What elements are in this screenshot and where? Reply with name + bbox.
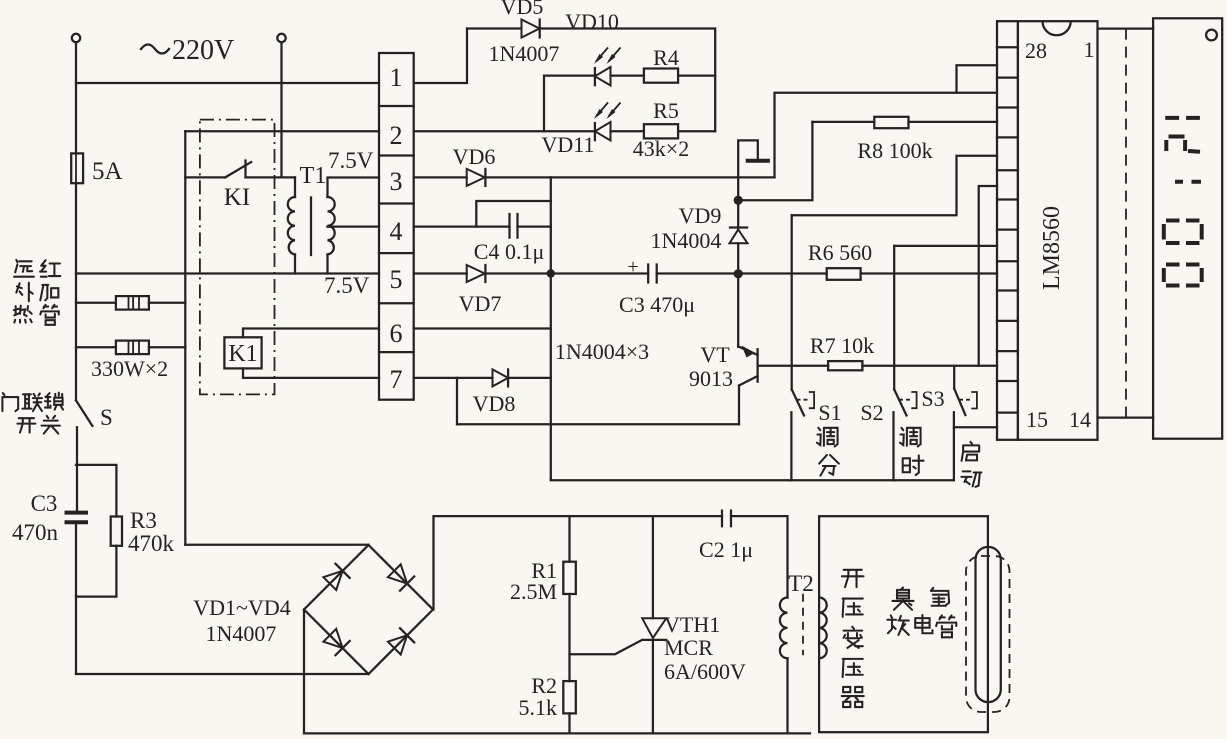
thyristor VTH1 anode lead xyxy=(652,516,654,618)
transformer T2 secondary on box edge xyxy=(819,598,827,659)
wire: node200 to R8 riser xyxy=(738,122,812,200)
label VD6 xyxy=(453,144,496,169)
svg-text:S1: S1 xyxy=(818,400,841,425)
svg-text:LM8560: LM8560 xyxy=(1039,206,1065,290)
transformer T1 primary xyxy=(288,177,295,254)
svg-text:4: 4 xyxy=(390,217,403,246)
chip pin label 1 xyxy=(1084,37,1095,62)
transistor VT 9013 xyxy=(739,346,758,425)
label R4 xyxy=(653,45,679,70)
wire: VD9 vertical x=738.2 xyxy=(737,200,739,274)
switch S3 (start) xyxy=(954,389,977,415)
svg-text:1N4004×3: 1N4004×3 xyxy=(555,339,649,364)
svg-text:S3: S3 xyxy=(921,386,944,411)
resistor R5 xyxy=(644,124,678,138)
IC U1 LM8560 body xyxy=(1018,21,1098,440)
wire: S3 upper lead xyxy=(953,366,955,389)
svg-text:VD10: VD10 xyxy=(565,9,619,34)
resistor R1 2.5M xyxy=(563,516,576,594)
wire: S3 to pin14 y=427.2 xyxy=(954,426,997,428)
svg-text:1: 1 xyxy=(1084,37,1095,62)
label S xyxy=(100,405,113,430)
node: junction dot 738.2,274.1 xyxy=(734,269,743,278)
svg-text:6A/600V: 6A/600V xyxy=(664,659,746,684)
ozone tube dashed envelope xyxy=(966,556,1010,712)
wire: K1 coil top to terminal6 xyxy=(243,329,379,338)
wire: C3R3 top bar y=464.9 xyxy=(76,465,116,517)
diode VD8 xyxy=(493,369,509,386)
label text: switch (kai guan) xyxy=(17,416,60,434)
bridge diode lower-right xyxy=(388,628,414,654)
wire: chip to display bottom y=417.6 xyxy=(1098,416,1154,418)
wire: pin5 line y=215.2 xyxy=(792,156,997,215)
label VD8 xyxy=(473,391,516,416)
label R8 100k xyxy=(857,138,932,163)
svg-text:T2: T2 xyxy=(788,571,814,596)
resistor R4 xyxy=(644,69,678,83)
svg-text:470k: 470k xyxy=(128,531,175,556)
label 330Wx2 xyxy=(91,356,168,381)
wire: S1 lower lead xyxy=(790,412,792,480)
wire: heater2 feed y=347.3 xyxy=(76,346,185,348)
svg-text:2: 2 xyxy=(390,121,403,150)
wire: VD5 top line y=28.5 xyxy=(467,29,715,132)
svg-text:6: 6 xyxy=(390,319,403,348)
label text: start (qi dong) xyxy=(961,442,981,487)
label KI xyxy=(224,184,250,211)
svg-text:1N4004: 1N4004 xyxy=(651,228,722,253)
capacitor C3 470u polarised xyxy=(648,265,657,283)
label R1 2.5M xyxy=(510,558,557,604)
label 1N4007 bottom xyxy=(206,621,277,646)
label C3 470n xyxy=(12,491,59,545)
svg-text:220V: 220V xyxy=(172,35,234,66)
wire: T1 secondary bottom lead xyxy=(326,255,328,274)
node: junction dot 738.2,200.2 xyxy=(734,196,743,205)
wire: terminal3/VD6 line y=177.4 xyxy=(414,176,775,178)
svg-text:5A: 5A xyxy=(92,158,123,185)
svg-text:14: 14 xyxy=(1069,407,1091,432)
label text: set hours (diao shi) xyxy=(900,428,924,475)
svg-text:1N4007: 1N4007 xyxy=(489,41,560,66)
wire: dashed link x=1126 xyxy=(1125,29,1127,418)
label T2 xyxy=(788,571,814,596)
svg-text:15: 15 xyxy=(1026,407,1048,432)
chip pin label 15 xyxy=(1026,407,1048,432)
wire: terminal5 long line y=273.5 xyxy=(76,272,997,274)
svg-text:VD11: VD11 xyxy=(542,132,595,157)
wire: S3 lower lead xyxy=(953,412,955,480)
wire: R8 line to pin4 y=121.9 xyxy=(812,121,997,123)
svg-text:VT: VT xyxy=(700,342,730,367)
svg-text:VD5: VD5 xyxy=(501,0,544,19)
fuse FU 5A xyxy=(71,153,83,183)
diode VD5 1N4007 xyxy=(522,20,540,38)
switch S (door interlock) xyxy=(76,400,92,426)
thyristor VTH1 gate xyxy=(570,641,642,655)
label R3 470k xyxy=(128,508,175,556)
terminal strip block 1-7 xyxy=(379,53,414,400)
wire: bridge bottom feed y=674 xyxy=(76,673,369,674)
svg-text:43k×2: 43k×2 xyxy=(633,136,689,161)
label T1 xyxy=(300,163,327,189)
relay dash-dot enclosure xyxy=(200,120,275,395)
svg-text:MCR: MCR xyxy=(664,635,713,660)
svg-text:C3: C3 xyxy=(31,491,58,516)
wire: T1 primary bottom lead xyxy=(294,255,296,274)
chip pin label 14 xyxy=(1069,407,1091,432)
label VD11 xyxy=(542,132,595,157)
bridge diode upper-left xyxy=(323,564,349,590)
svg-text:R6 560: R6 560 xyxy=(808,240,872,265)
svg-text:VD6: VD6 xyxy=(453,144,496,169)
wire: emitter return y=424.2 xyxy=(457,423,739,425)
switch S2 (set hours) xyxy=(894,389,916,415)
display module box xyxy=(1153,18,1222,438)
label R7 10k xyxy=(810,333,874,358)
electrode plate (50Hz pickup) xyxy=(746,159,770,163)
wire: KI contact line y=177.4 xyxy=(185,176,295,178)
svg-text:R3: R3 xyxy=(130,508,157,533)
svg-text:R5: R5 xyxy=(653,98,679,123)
LED VD10 xyxy=(594,48,621,86)
resistor R3 470k xyxy=(111,517,122,546)
label R6 560 xyxy=(808,240,872,265)
capacitor C3 470n xyxy=(65,513,89,523)
label plus sign xyxy=(627,256,638,278)
label text: (re guan) xyxy=(14,305,59,325)
label 43kx2 xyxy=(633,136,689,161)
capacitor C4 0.1u xyxy=(510,214,518,238)
bridge diode upper-right xyxy=(388,564,414,590)
wire: C4 jog y=201 xyxy=(476,201,551,227)
label 1N4004 xyxy=(651,228,722,253)
node: 220V right terminal xyxy=(277,34,285,42)
wire: oscillator bottom rail y=733.4 xyxy=(304,732,810,734)
label VD10 xyxy=(565,9,619,34)
wire: rectifier common vertical x=550.8 xyxy=(550,177,552,479)
label VD1-VD4 xyxy=(193,595,290,620)
wire: S2 lower lead xyxy=(892,412,894,480)
resistor R2 5.1k xyxy=(563,594,576,733)
label ~220V xyxy=(141,35,234,66)
wire: pin7 line y=245.9 xyxy=(894,245,997,247)
wire: S1 upper lead xyxy=(791,215,793,389)
label text: far-infrared heating tube (yuan hong) xyxy=(14,260,60,277)
svg-text:1: 1 xyxy=(390,63,403,92)
svg-text:C2 1μ: C2 1μ xyxy=(699,537,753,562)
transformer T1 core xyxy=(310,198,312,256)
svg-text:R8 100k: R8 100k xyxy=(857,138,932,163)
svg-text:VD1~VD4: VD1~VD4 xyxy=(193,595,290,620)
svg-text:3: 3 xyxy=(390,167,403,196)
transformer T1 secondary xyxy=(328,197,335,255)
wire: chip to display top y=28.6 xyxy=(1098,27,1154,29)
display colon indicator circle xyxy=(1206,30,1217,41)
svg-text:C3 470μ: C3 470μ xyxy=(619,292,695,317)
label text: set minutes (diao fen) xyxy=(817,428,839,476)
label text: HV transformer column (kai ya bian ya qi) xyxy=(842,570,864,707)
wire: terminal2 line y=131.3 xyxy=(185,130,715,132)
resistor R6 560 xyxy=(827,268,861,280)
chip name LM8560 rotated xyxy=(1039,206,1065,290)
relay coil K1 xyxy=(224,337,261,368)
svg-text:T1: T1 xyxy=(300,163,327,189)
svg-text:R7 10k: R7 10k xyxy=(810,333,874,358)
label S1 xyxy=(818,400,841,425)
svg-text:VD7: VD7 xyxy=(459,291,502,316)
label 1N4004x3 xyxy=(555,339,649,364)
switch S1 (set minutes) xyxy=(792,389,814,415)
label S3 xyxy=(921,386,944,411)
label text: discharge tube (fang dian guan) xyxy=(887,615,956,637)
svg-text:7: 7 xyxy=(390,365,403,394)
heater element 1 (330W) xyxy=(116,296,149,310)
label 1N4007 top xyxy=(489,41,560,66)
svg-text:5: 5 xyxy=(390,265,403,294)
capacitor C2 1u xyxy=(722,511,731,527)
wire: S2 upper lead xyxy=(893,246,895,390)
wire: left mains rail x=76 xyxy=(76,43,77,674)
thyristor VTH1 symbol xyxy=(642,618,666,733)
wire: terminal6 line right y=328.5 xyxy=(414,327,551,329)
label VD7 xyxy=(459,291,502,316)
transformer T2 primary xyxy=(780,516,788,733)
svg-text:+: + xyxy=(627,256,638,278)
display digit 1 segments xyxy=(1165,116,1200,120)
svg-text:KI: KI xyxy=(224,184,250,211)
diode VD7 xyxy=(467,265,486,282)
label S2 xyxy=(860,400,883,425)
ozone discharge tube xyxy=(976,547,1001,702)
svg-text:7.5V: 7.5V xyxy=(324,273,370,298)
diode VD6 xyxy=(467,169,486,186)
label text: (wai jia) xyxy=(16,283,58,302)
wire: bridge minus drop x=304 xyxy=(303,610,305,734)
terminal strip pin numbers 1-7 xyxy=(390,63,403,394)
svg-text:VD9: VD9 xyxy=(679,203,722,228)
wire: switch common rail y=480.2 xyxy=(551,478,954,481)
wire: T1 secondary top to terminal3 xyxy=(328,178,380,198)
wire: 50Hz line to pin3 y=92.8 xyxy=(775,93,998,178)
svg-text:S: S xyxy=(100,405,113,430)
wire: base/R7 line y=365.7 xyxy=(759,365,998,367)
label 7.5V upper xyxy=(328,148,374,173)
label text: door interlock (men lian suo) xyxy=(2,393,63,411)
node: 220V left terminal xyxy=(72,34,80,42)
label 7.5V lower xyxy=(324,273,370,298)
label VTH1 MCR 6A/600V xyxy=(664,612,746,684)
svg-text:VTH1: VTH1 xyxy=(664,612,720,637)
wire: terminal7/VD8 line y=377.9 xyxy=(414,377,551,379)
bridge rectifier VD1-VD4 diamond xyxy=(304,545,433,674)
wire: electrode plate link xyxy=(738,140,758,200)
svg-text:330W×2: 330W×2 xyxy=(91,356,168,381)
display digit 2 segments xyxy=(1166,137,1200,152)
wire: pin6 drop x=978.7 xyxy=(979,186,997,366)
wire: T1 centre tap to terminal4 xyxy=(328,225,380,227)
display digit 0 first xyxy=(1164,221,1202,244)
label 9013 xyxy=(689,366,733,391)
svg-text:S2: S2 xyxy=(860,400,883,425)
resistor R7 10k xyxy=(828,361,862,370)
wire: right mains drop x=281.5 xyxy=(280,43,282,178)
display digit 0 second xyxy=(1164,265,1202,286)
svg-text:R4: R4 xyxy=(653,45,679,70)
wire: VT collector drop xyxy=(737,274,739,347)
svg-text:2.5M: 2.5M xyxy=(510,579,557,604)
svg-text:K1: K1 xyxy=(228,341,257,367)
label VT xyxy=(700,342,730,367)
label VD9 xyxy=(679,203,722,228)
label text: ozone (chou yang) xyxy=(892,587,949,609)
wire: bridge top feed y=544.8 xyxy=(185,544,368,546)
svg-text:VD8: VD8 xyxy=(473,391,516,416)
diode VD9 1N4004 xyxy=(730,228,748,244)
label C4 0.1u xyxy=(474,239,544,264)
label C3 470u xyxy=(619,292,695,317)
wire: left heater branch vertical x=185.3 xyxy=(184,131,186,545)
svg-text:28: 28 xyxy=(1025,38,1047,63)
wire: heater1 feed y=302.8 xyxy=(76,302,185,304)
resistor R8 100k xyxy=(874,117,908,128)
LED VD11 xyxy=(594,103,621,141)
wire: terminal4/C4 line y=226.6 xyxy=(414,225,551,227)
node: junction dot 550.8,273.5 xyxy=(547,269,555,277)
label R2 5.1k xyxy=(519,673,558,720)
chip pin label 28 xyxy=(1025,38,1047,63)
ozone generator box xyxy=(819,516,988,732)
svg-text:7.5V: 7.5V xyxy=(328,148,374,173)
bridge diode lower-left xyxy=(323,629,349,655)
label K1 xyxy=(228,341,257,367)
display colon segments xyxy=(1175,180,1201,184)
wire: C3R3 bottom bar y=596.6 xyxy=(76,546,116,597)
svg-text:5.1k: 5.1k xyxy=(519,695,558,720)
label 5A xyxy=(92,158,123,185)
svg-text:9013: 9013 xyxy=(689,366,733,391)
wire: oscillator top rail y=516.1 xyxy=(434,515,787,517)
svg-text:470n: 470n xyxy=(12,520,59,545)
wire: bridge plus riser x=433.5 xyxy=(432,516,435,609)
wire: terminal1 feed y=83 xyxy=(76,29,467,84)
wire: K1 coil bottom to terminal7 xyxy=(243,368,379,378)
label R5 xyxy=(653,98,679,123)
relay contact KI xyxy=(225,161,251,178)
svg-text:1N4007: 1N4007 xyxy=(206,621,277,646)
IC U1 LM8560 pin box column xyxy=(997,21,1018,440)
svg-text:C4 0.1μ: C4 0.1μ xyxy=(474,239,544,264)
transformer T2 core dashed xyxy=(802,594,804,655)
heater element 2 (330W) xyxy=(116,341,149,355)
wire: pin2 jog x=956.5 xyxy=(957,65,998,93)
wire: VD10/R4 branch y=75.6 xyxy=(544,76,715,132)
label VD5 xyxy=(501,0,544,19)
label C2 1u xyxy=(699,537,753,562)
wire: terminal7 jog down x=457 xyxy=(456,378,458,424)
